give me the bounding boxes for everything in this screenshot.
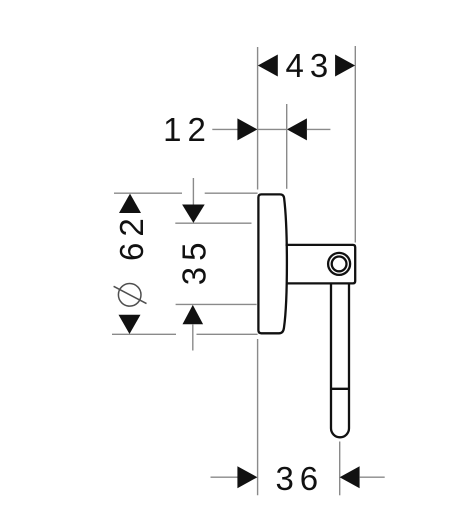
svg-text:35: 35 <box>176 237 213 286</box>
svg-text:12: 12 <box>163 111 212 148</box>
dim 62 arrow down <box>119 315 141 334</box>
dim 43 extension line right <box>354 46 356 243</box>
dim 43 arrow right <box>335 55 355 77</box>
dim 36 leader left <box>211 476 239 478</box>
dim 35 bottom leader line <box>192 324 194 351</box>
rod joint line <box>331 388 349 390</box>
svg-text:43: 43 <box>286 47 335 84</box>
dim 36 arrow left-pointing <box>340 466 360 488</box>
dim 62 arrow up <box>119 194 141 213</box>
diameter symbol <box>114 284 147 307</box>
holder arm outline <box>286 245 356 284</box>
dim 35 top leader line <box>192 178 194 205</box>
dim 43 extension line left <box>257 47 259 190</box>
dim 62 top reference line <box>114 192 258 194</box>
dim 35 bottom reference line <box>176 303 257 305</box>
dim 12 line between <box>258 128 287 130</box>
dim 62 bottom reference line <box>112 333 258 335</box>
dim 43 arrow left <box>258 55 278 77</box>
drop rod outline <box>331 284 349 437</box>
dim 35 top reference line <box>175 222 251 224</box>
dim 12 arrow right-pointing <box>237 118 257 140</box>
dim 35 arrow up <box>183 305 204 324</box>
svg-text:36: 36 <box>275 460 324 497</box>
dim 12 leader left <box>212 128 238 130</box>
dim 35 arrow down <box>182 205 205 223</box>
dim 12 arrow left-pointing <box>287 118 307 140</box>
wall plate outline <box>258 194 287 333</box>
screw inner circle <box>332 257 347 272</box>
dim 36 extension line right <box>339 442 341 496</box>
svg-text:62: 62 <box>113 212 150 261</box>
dim 12 tail right <box>307 128 331 130</box>
screw outer circle <box>328 253 350 275</box>
dim 36 tail right <box>360 476 385 478</box>
dim 36 extension line left <box>257 339 259 495</box>
dim 12 extension line <box>286 104 288 189</box>
dim 36 arrow right-pointing <box>237 466 257 488</box>
